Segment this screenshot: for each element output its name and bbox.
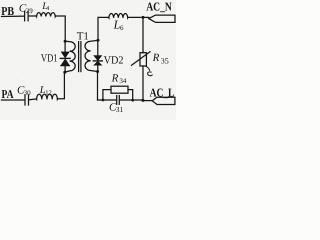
squiggle mark below R35 (146, 66, 153, 76)
node junction top-right (97, 39, 100, 42)
varistor R35 (132, 17, 151, 100)
transformer T1 secondary winding (85, 40, 98, 71)
svg-text:6: 6 (120, 24, 124, 32)
label L6 (113, 17, 124, 32)
wire top-left rail from PB to C29 (2, 15, 25, 17)
label C29 (19, 2, 33, 15)
svg-text:29: 29 (26, 7, 34, 15)
resistor R34 bypass branch (103, 86, 133, 100)
wire L12 to riser up to transformer (58, 72, 65, 99)
inductor L12 (36, 94, 57, 99)
wire secondary bottom riser down (97, 72, 99, 101)
wire C31 right plate to AC_L junction (120, 99, 143, 101)
diode VD2 (bidirectional suppressor) (93, 40, 102, 71)
diode VD1 (bidirectional suppressor) (60, 41, 70, 72)
svg-text:31: 31 (116, 105, 124, 114)
wire bottom-right rail to C31 left plate (98, 99, 117, 101)
capacitor C30 (25, 95, 29, 105)
svg-text:35: 35 (161, 57, 169, 66)
label L12 (39, 85, 52, 97)
label C30 (17, 84, 31, 97)
label R34 (111, 72, 127, 85)
svg-text:VD1: VD1 (41, 52, 58, 64)
transformer T1 primary winding (65, 41, 75, 72)
node junction bottom-left (63, 71, 66, 74)
node junction AC_N (142, 16, 145, 19)
svg-text:4: 4 (46, 6, 49, 12)
wire AC_L junction to connector (143, 100, 152, 102)
node junction R34 left (102, 99, 105, 102)
svg-text:PA: PA (2, 87, 14, 101)
wire secondary top riser to L6 rail (98, 17, 109, 40)
transformer T1 core (79, 42, 81, 72)
svg-text:R: R (111, 72, 119, 84)
inductor L6 (109, 14, 128, 18)
label L4 (41, 1, 49, 12)
svg-text:T1: T1 (77, 30, 89, 42)
wire L4 to corner, riser down to transformer (55, 16, 65, 41)
capacitor C31 (117, 96, 120, 105)
wire C30 to L12 (29, 98, 36, 101)
svg-text:30: 30 (24, 89, 32, 97)
wire C29 to L4 (29, 15, 37, 17)
svg-text:AC_N: AC_N (146, 0, 172, 14)
connector AC_L (152, 97, 175, 104)
label R35 (152, 52, 169, 66)
node junction top-left (64, 40, 67, 43)
node junction bottom-right (96, 70, 99, 73)
svg-text:34: 34 (119, 77, 127, 85)
capacitor C29 (25, 11, 29, 20)
wire bottom-left rail from PA to C30 (2, 99, 25, 101)
svg-text:VD2: VD2 (104, 55, 124, 67)
svg-text:R: R (152, 52, 160, 64)
wire L6 to AC_N junction (128, 16, 149, 18)
label C31 (109, 101, 124, 114)
inductor L4 (36, 13, 55, 17)
node junction AC_L (141, 99, 144, 102)
svg-text:12: 12 (45, 90, 52, 97)
connector AC_N (149, 15, 175, 22)
node junction R34 right (131, 99, 134, 102)
